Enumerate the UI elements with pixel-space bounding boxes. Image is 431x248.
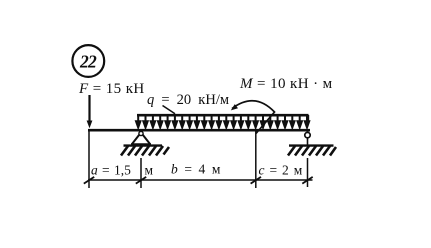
svg-text:b = 4 м: b = 4 м: [171, 162, 222, 177]
svg-text:F = 15 кН: F = 15 кН: [78, 81, 145, 97]
svg-text:c = 2 м: c = 2 м: [259, 163, 304, 178]
svg-text:q = 20 кН/м: q = 20 кН/м: [147, 92, 229, 108]
svg-text:a=1,5: a=1,5: [91, 163, 131, 178]
svg-text:M = 10 кН · м: M = 10 кН · м: [239, 76, 333, 92]
svg-text:м: м: [145, 163, 154, 178]
svg-text:22: 22: [79, 51, 97, 71]
